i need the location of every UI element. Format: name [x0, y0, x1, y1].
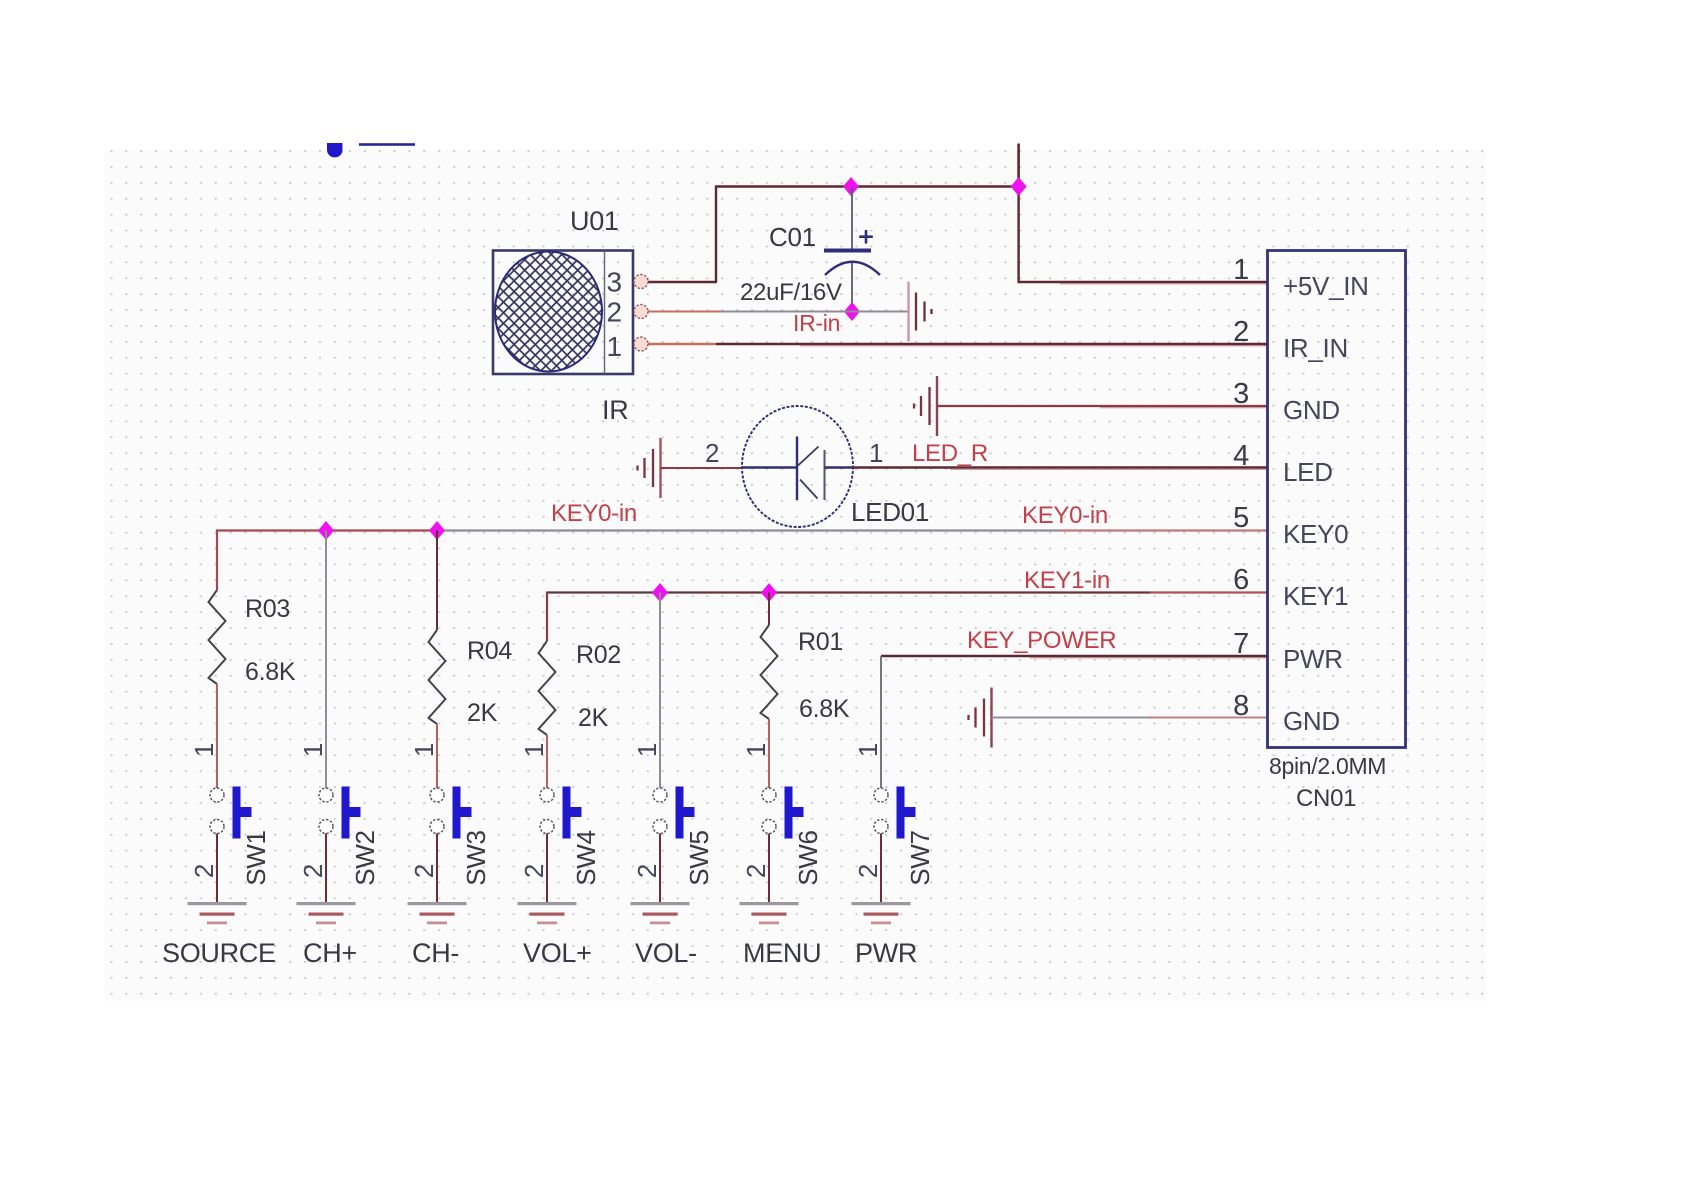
- key function label VOL+: [523, 938, 592, 968]
- wire KEY1 left leg to R02: [546, 592, 548, 642]
- wire +5V feed vertical from top: [1017, 144, 1020, 188]
- svg-text:2: 2: [519, 864, 549, 878]
- svg-text:1: 1: [409, 743, 439, 757]
- svg-text:1: 1: [1233, 254, 1249, 286]
- net label KEY_POWER: [967, 627, 1116, 654]
- CN01 pin 5 number: [1233, 502, 1249, 534]
- key function label SOURCE: [162, 938, 276, 968]
- wire KEY0 to R04: [436, 531, 438, 631]
- ground at CN01 pin3: [914, 376, 937, 436]
- svg-text:KEY0-in: KEY0-in: [551, 500, 637, 527]
- svg-text:SW6: SW6: [793, 830, 823, 885]
- svg-text:8pin/2.0MM: 8pin/2.0MM: [1269, 753, 1386, 779]
- svg-text:2: 2: [705, 438, 719, 468]
- switch SW3: [430, 787, 472, 839]
- label SW4: [571, 830, 601, 885]
- SW3 pin 1 number: [409, 743, 439, 757]
- svg-text:IR_IN: IR_IN: [1283, 333, 1348, 363]
- wire KEY_POWER leg to SW7: [880, 656, 882, 788]
- ground under SW5: [631, 902, 690, 924]
- CN01 pin label GND: [1283, 706, 1340, 736]
- svg-text:R03: R03: [245, 595, 290, 623]
- label C01: [769, 222, 816, 252]
- wire SW6 to ground: [768, 834, 770, 903]
- label SW3: [461, 830, 491, 885]
- value 6.8K: [799, 695, 850, 723]
- switch SW5: [653, 787, 695, 839]
- net label IR-in: [793, 310, 840, 336]
- CN01 pin label KEY1: [1283, 581, 1348, 611]
- ground under SW4: [518, 902, 577, 924]
- junction node C01 bottom / IR-in: [844, 302, 860, 321]
- svg-text:22uF/16V: 22uF/16V: [740, 279, 842, 306]
- svg-text:2: 2: [409, 864, 439, 878]
- junction node KEY1/R01: [761, 583, 777, 602]
- ground under SW2: [297, 902, 356, 924]
- resistor R04: [429, 630, 446, 724]
- wire R04 to SW3: [436, 724, 438, 788]
- SW3 pin 2 number: [409, 864, 439, 878]
- svg-text:7: 7: [1233, 628, 1249, 660]
- wire +5V left leg down to U01 pin3: [648, 186, 717, 283]
- svg-text:5: 5: [1233, 502, 1249, 534]
- svg-text:MENU: MENU: [743, 938, 821, 968]
- svg-text:VOL+: VOL+: [523, 938, 592, 968]
- svg-text:CN01: CN01: [1296, 785, 1356, 812]
- svg-text:+5V_IN: +5V_IN: [1283, 271, 1369, 301]
- svg-text:R04: R04: [467, 637, 512, 665]
- value 22uF/16V: [740, 279, 842, 306]
- ground at CN01 pin8: [969, 688, 992, 748]
- wire KEY0 left leg: [216, 530, 218, 591]
- SW2 pin 1 number: [298, 743, 328, 757]
- label 8pin/2.0MM: [1269, 753, 1386, 779]
- svg-text:1: 1: [741, 743, 771, 757]
- resistor R02: [539, 641, 556, 735]
- SW7 pin 2 number: [853, 864, 883, 878]
- wire SW5 drop: [659, 593, 661, 789]
- wire SW2 drop: [325, 531, 327, 789]
- CN01 pin 7 number: [1233, 628, 1249, 660]
- label SW7: [905, 830, 935, 885]
- wire ground to CN01 pin3: [937, 406, 1267, 408]
- watermark logo blob: [327, 143, 343, 157]
- net label LED_R: [912, 440, 988, 467]
- key function label MENU: [743, 938, 821, 968]
- svg-text:IR: IR: [602, 395, 628, 425]
- wire IR-in from U01 pin 2: [648, 311, 852, 313]
- CN01 pin 6 number: [1233, 564, 1249, 596]
- svg-text:1: 1: [869, 438, 883, 468]
- switch SW1: [210, 787, 252, 839]
- net label KEY0-in left: [551, 500, 637, 527]
- svg-text:2: 2: [632, 864, 662, 878]
- SW2 pin 2 number: [298, 864, 328, 878]
- svg-text:C01: C01: [769, 222, 816, 252]
- wire ground to LED01 pin2: [661, 467, 743, 469]
- wire +5V top rail: [715, 185, 1019, 188]
- watermark logo line: [359, 143, 415, 146]
- svg-text:2: 2: [741, 864, 771, 878]
- LED01 pin 2 number: [705, 438, 719, 468]
- CN01 pin 4 number: [1233, 440, 1249, 472]
- CN01 pin 3 number: [1233, 378, 1249, 410]
- wire SW7 to ground: [880, 834, 882, 903]
- svg-text:1: 1: [189, 743, 219, 757]
- wire R03 to SW1: [216, 684, 218, 788]
- svg-text:LED01: LED01: [851, 497, 929, 527]
- net label KEY0-in right: [1022, 502, 1108, 529]
- wire IR_IN U01 pin1 to CN01 pin2: [648, 344, 1267, 346]
- svg-text:2K: 2K: [578, 704, 609, 732]
- svg-text:SW4: SW4: [571, 830, 601, 885]
- svg-text:SOURCE: SOURCE: [162, 938, 276, 968]
- LED01 phototransistor symbol: [742, 406, 853, 527]
- svg-text:3: 3: [1233, 378, 1249, 410]
- CN01 pin label PWR: [1283, 644, 1343, 674]
- label R04: [467, 637, 512, 665]
- CN01 pin label +5V_IN: [1283, 271, 1369, 301]
- svg-text:2: 2: [189, 864, 219, 878]
- junction node KEY0/R04: [429, 521, 445, 540]
- junction node at C01 top: [843, 177, 859, 196]
- CN01 pin 2 number: [1233, 316, 1249, 348]
- CN01 pin 8 number: [1233, 690, 1249, 722]
- SW1 pin 1 number: [189, 743, 219, 757]
- U01 pin number 2: [607, 297, 622, 328]
- svg-text:CH+: CH+: [303, 938, 357, 968]
- svg-text:1: 1: [853, 743, 883, 757]
- svg-text:1: 1: [607, 331, 622, 362]
- U01 pin number 1: [607, 331, 622, 362]
- wire LED01 pin1 to CN01 pin4 LED: [853, 468, 1267, 470]
- label U01: [570, 206, 619, 236]
- value 6.8K: [245, 658, 296, 686]
- svg-text:R02: R02: [576, 641, 621, 669]
- junction node KEY1/SW5: [652, 583, 668, 602]
- ground under SW6: [740, 902, 799, 924]
- label SW5: [684, 830, 714, 885]
- ground at IR-in: [909, 282, 932, 342]
- CN01 pin label IR_IN: [1283, 333, 1348, 363]
- wire IR-in to ground: [852, 311, 908, 313]
- label CN01: [1296, 785, 1356, 812]
- svg-text:KEY0-in: KEY0-in: [1022, 502, 1108, 529]
- svg-text:KEY_POWER: KEY_POWER: [967, 627, 1116, 654]
- value 2K: [578, 704, 609, 732]
- CN01 pin label LED: [1283, 457, 1333, 487]
- SW4 pin 2 number: [519, 864, 549, 878]
- wire KEY_POWER: [881, 656, 1267, 658]
- label R01: [798, 628, 843, 656]
- ground under SW1: [188, 902, 247, 924]
- U01 pin 3 terminal: [634, 275, 648, 289]
- SW5 pin 2 number: [632, 864, 662, 878]
- svg-text:KEY0: KEY0: [1283, 519, 1348, 549]
- svg-text:2: 2: [607, 297, 622, 328]
- connector CN01 box: [1268, 251, 1406, 748]
- SW5 pin 1 number: [632, 743, 662, 757]
- svg-text:VOL-: VOL-: [635, 938, 697, 968]
- switch SW2: [319, 787, 361, 839]
- svg-text:SW7: SW7: [905, 830, 935, 885]
- svg-text:1: 1: [298, 743, 328, 757]
- label LED01: [851, 497, 929, 527]
- svg-text:8: 8: [1233, 690, 1249, 722]
- wire R01 to SW6: [768, 719, 770, 788]
- label R02: [576, 641, 621, 669]
- svg-text:U01: U01: [570, 206, 619, 236]
- label IR: [602, 395, 628, 425]
- wire KEY1 to R01: [768, 593, 770, 626]
- value 2K: [467, 699, 498, 727]
- wire SW1 to ground: [216, 834, 218, 903]
- SW6 pin 1 number: [741, 743, 771, 757]
- svg-text:SW2: SW2: [350, 830, 380, 885]
- label SW6: [793, 830, 823, 885]
- LED01 pin 1 number: [869, 438, 883, 468]
- svg-text:2: 2: [1233, 316, 1249, 348]
- svg-text:6.8K: 6.8K: [799, 695, 850, 723]
- wire ground to CN01 pin8: [992, 717, 1268, 719]
- svg-text:PWR: PWR: [855, 938, 917, 968]
- ground under SW7: [852, 902, 911, 924]
- svg-text:CH-: CH-: [412, 938, 459, 968]
- svg-text:IR-in: IR-in: [793, 310, 840, 336]
- key function label CH-: [412, 938, 459, 968]
- ground under SW3: [408, 902, 467, 924]
- ground at LED01 pin 2: [638, 438, 661, 498]
- capacitor C01: [824, 187, 880, 312]
- svg-text:2K: 2K: [467, 699, 498, 727]
- svg-text:SW1: SW1: [241, 830, 271, 885]
- resistor R01: [761, 625, 778, 719]
- svg-text:LED: LED: [1283, 457, 1333, 487]
- junction node at +5V corner: [1011, 177, 1027, 196]
- svg-text:LED_R: LED_R: [912, 440, 988, 467]
- wire SW2 to ground: [325, 834, 327, 903]
- svg-text:SW3: SW3: [461, 830, 491, 885]
- svg-text:2: 2: [853, 864, 883, 878]
- svg-text:SW5: SW5: [684, 830, 714, 885]
- CN01 pin 1 number: [1233, 254, 1249, 286]
- wire SW4 to ground: [546, 834, 548, 903]
- CN01 pin label GND: [1283, 395, 1340, 425]
- svg-text:1: 1: [519, 743, 549, 757]
- svg-text:PWR: PWR: [1283, 644, 1343, 674]
- SW1 pin 2 number: [189, 864, 219, 878]
- wire SW3 to ground: [436, 834, 438, 903]
- IC U01 IR receiver box: [493, 251, 633, 375]
- net label KEY1-in: [1024, 567, 1110, 594]
- CN01 pin label KEY0: [1283, 519, 1348, 549]
- key function label VOL-: [635, 938, 697, 968]
- svg-text:3: 3: [607, 267, 622, 298]
- svg-text:6.8K: 6.8K: [245, 658, 296, 686]
- svg-text:KEY1: KEY1: [1283, 581, 1348, 611]
- junction node KEY0/SW2: [318, 521, 334, 540]
- svg-text:1: 1: [632, 743, 662, 757]
- SW6 pin 2 number: [741, 864, 771, 878]
- switch SW4: [540, 787, 582, 839]
- svg-text:2: 2: [298, 864, 328, 878]
- U01 pin number 3: [607, 267, 622, 298]
- U01 crosshatched lens circle: [495, 252, 602, 372]
- wire R02 to SW4: [546, 735, 548, 788]
- label SW1: [241, 830, 271, 885]
- wire KEY0-in rail: [216, 529, 1267, 531]
- switch SW7: [874, 787, 916, 839]
- svg-text:R01: R01: [798, 628, 843, 656]
- svg-text:6: 6: [1233, 564, 1249, 596]
- svg-text:4: 4: [1233, 440, 1249, 472]
- key function label PWR: [855, 938, 917, 968]
- wire SW5 to ground: [659, 834, 661, 903]
- SW4 pin 1 number: [519, 743, 549, 757]
- svg-text:KEY1-in: KEY1-in: [1024, 567, 1110, 594]
- label R03: [245, 595, 290, 623]
- U01 pin 2 terminal: [634, 305, 648, 319]
- SW7 pin 1 number: [853, 743, 883, 757]
- wire KEY1-in rail: [547, 591, 1267, 593]
- U01 pin 1 terminal: [634, 337, 648, 351]
- key function label CH+: [303, 938, 357, 968]
- svg-text:GND: GND: [1283, 395, 1340, 425]
- resistor R03: [209, 590, 226, 684]
- switch SW6: [762, 787, 804, 839]
- label SW2: [350, 830, 380, 885]
- wire +5V right leg down to CN01 pin1: [1018, 187, 1268, 284]
- svg-text:GND: GND: [1283, 706, 1340, 736]
